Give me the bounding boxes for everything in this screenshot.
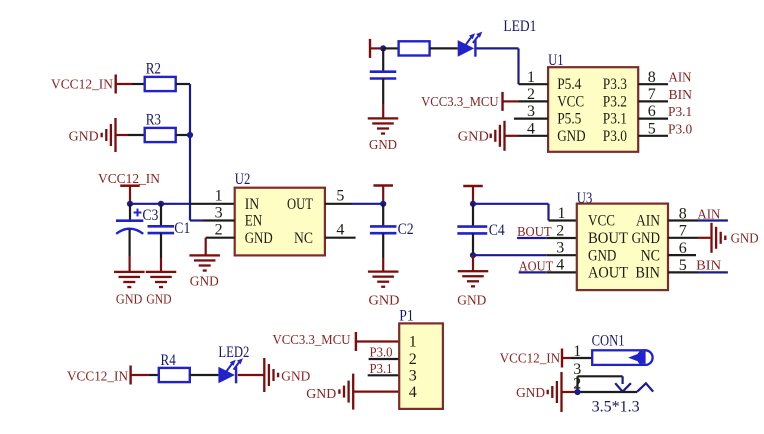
wire pin 5 OUT — [325, 203, 383, 205]
wire pin 6 — [668, 254, 696, 256]
IC U3 body — [577, 204, 668, 291]
wire — [160, 204, 162, 227]
wire — [190, 374, 219, 376]
svg-text:AIN: AIN — [669, 71, 692, 86]
wire pin 3 — [578, 375, 623, 377]
wire pin 3 — [473, 254, 577, 256]
power port tick — [369, 39, 371, 58]
svg-text:GND: GND — [116, 293, 142, 308]
svg-text:BIN: BIN — [669, 88, 693, 103]
wire — [476, 47, 518, 49]
svg-text:VCC: VCC — [557, 93, 584, 110]
svg-text:BIN: BIN — [696, 259, 721, 274]
svg-text:GND: GND — [69, 130, 99, 145]
svg-text:VCC12_IN: VCC12_IN — [67, 370, 128, 385]
svg-text:IN: IN — [245, 196, 260, 213]
junction node C3 — [127, 201, 133, 207]
wire pin 1 — [356, 340, 399, 342]
svg-text:1: 1 — [409, 334, 417, 351]
svg-text:P3.0: P3.0 — [668, 122, 692, 137]
wire — [130, 203, 235, 205]
wire — [472, 204, 474, 227]
wire pin 3 — [368, 374, 400, 376]
wire pin 6 — [638, 117, 668, 119]
wire vertical bus — [189, 84, 191, 221]
svg-text:4: 4 — [409, 384, 417, 401]
svg-text:3: 3 — [556, 240, 564, 257]
capacitor LED1 branch — [370, 72, 397, 79]
power bar — [463, 185, 483, 204]
capacitor C4 — [457, 227, 487, 234]
IC U1 body — [548, 67, 638, 152]
wire — [383, 47, 398, 49]
svg-text:GND: GND — [146, 293, 171, 308]
svg-text:3: 3 — [409, 368, 417, 385]
power bar VCC12_IN — [120, 184, 140, 203]
svg-text:P3.0: P3.0 — [603, 128, 627, 145]
svg-text:R4: R4 — [161, 352, 176, 369]
svg-text:R3: R3 — [146, 112, 161, 129]
svg-text:GND: GND — [588, 247, 616, 264]
power port tick VCC12_IN — [115, 75, 117, 94]
junction node C1 — [158, 201, 164, 207]
svg-text:LED1: LED1 — [503, 18, 536, 35]
wire pin 2 — [503, 100, 549, 102]
svg-text:3: 3 — [215, 204, 223, 221]
svg-text:P3.1: P3.1 — [668, 105, 692, 120]
svg-text:GND: GND — [369, 138, 397, 153]
svg-text:BIN: BIN — [635, 265, 660, 282]
ground — [490, 121, 506, 151]
svg-text:NC: NC — [294, 230, 313, 247]
ground — [114, 271, 145, 288]
wire pin 4 — [519, 271, 577, 273]
svg-text:CON1: CON1 — [592, 333, 625, 350]
svg-text:C2: C2 — [398, 221, 414, 238]
svg-text:U2: U2 — [235, 171, 251, 188]
resistor R2 — [145, 77, 176, 91]
ground — [368, 117, 399, 134]
svg-text:4: 4 — [336, 221, 344, 238]
plus sign C3 — [134, 209, 142, 217]
power port tick — [355, 332, 357, 351]
ground — [101, 118, 117, 152]
svg-text:GND: GND — [457, 294, 486, 309]
wire pin 4 — [353, 391, 399, 393]
svg-text:2: 2 — [215, 221, 223, 238]
wire pin 7 — [638, 100, 668, 102]
svg-text:P5.4: P5.4 — [557, 76, 581, 93]
svg-text:GND: GND — [190, 275, 219, 290]
svg-text:C3: C3 — [142, 207, 158, 224]
resistor R3 — [145, 128, 176, 142]
wire — [160, 233, 162, 258]
wire — [238, 374, 264, 376]
svg-text:GND: GND — [245, 230, 273, 247]
svg-text:AIN: AIN — [697, 207, 720, 222]
svg-text:C4: C4 — [489, 222, 505, 239]
svg-text:P5.5: P5.5 — [557, 111, 581, 128]
wire — [473, 203, 549, 205]
wire pin 7 — [668, 237, 710, 239]
wire — [116, 134, 145, 136]
wire pin 2 — [369, 358, 400, 360]
svg-text:GND: GND — [632, 230, 660, 247]
wire — [176, 83, 190, 85]
wire — [382, 233, 384, 258]
ground — [368, 270, 399, 287]
wire — [131, 374, 159, 376]
svg-text:GND: GND — [557, 128, 585, 145]
svg-text:P3.1: P3.1 — [603, 111, 627, 128]
power port tick VCC3.3_MCU — [501, 92, 503, 111]
wire pin 3 EN — [190, 219, 235, 221]
svg-text:VCC12_IN: VCC12_IN — [500, 352, 560, 367]
svg-text:5: 5 — [336, 188, 344, 205]
svg-text:1: 1 — [215, 188, 223, 205]
svg-text:VCC12_IN: VCC12_IN — [51, 78, 113, 93]
wire pin 4 — [505, 135, 549, 137]
svg-text:GND: GND — [281, 370, 310, 385]
wire pin 1 — [549, 219, 577, 221]
switch contact arrow — [615, 376, 631, 391]
svg-text:AIN: AIN — [636, 213, 660, 230]
svg-text:LED2: LED2 — [218, 344, 249, 361]
capacitor C1 — [148, 226, 175, 233]
svg-text:NC: NC — [641, 247, 660, 264]
svg-text:GND: GND — [516, 386, 545, 401]
wire — [370, 47, 383, 49]
wire — [176, 134, 190, 136]
junction — [380, 45, 386, 51]
wire — [129, 204, 131, 221]
svg-text:GND: GND — [458, 130, 489, 145]
svg-text:2: 2 — [556, 222, 564, 239]
ground — [263, 358, 279, 392]
svg-text:EN: EN — [245, 213, 263, 230]
capacitor C2 — [370, 226, 397, 233]
wire — [205, 238, 207, 256]
wire pin 8 — [668, 219, 728, 221]
wire — [472, 233, 474, 255]
svg-text:OUT: OUT — [287, 196, 313, 213]
junction — [187, 132, 193, 138]
wire pin 2 GND — [206, 237, 235, 239]
svg-text:3.5*1.3: 3.5*1.3 — [592, 399, 640, 416]
svg-text:GND: GND — [369, 294, 400, 309]
wire — [382, 204, 384, 227]
svg-text:P3.2: P3.2 — [603, 93, 627, 110]
wire pin 2 — [578, 391, 638, 393]
regulator U2 body — [235, 188, 325, 256]
ground — [338, 374, 354, 410]
LED LED2 — [218, 358, 243, 383]
LED LED1 — [458, 32, 483, 57]
svg-text:P1: P1 — [399, 308, 414, 325]
wire pin 5 — [638, 135, 668, 137]
power port tick — [561, 349, 563, 368]
wire pin 2 — [517, 237, 577, 239]
connector P1 body — [399, 323, 443, 409]
junction — [470, 201, 476, 207]
power bar — [373, 184, 393, 204]
resistor R1 — [399, 41, 430, 55]
wire pin 5 — [668, 271, 728, 273]
junction — [470, 252, 476, 258]
ground — [146, 271, 177, 288]
svg-text:C1: C1 — [174, 220, 190, 237]
wire — [430, 47, 458, 49]
wire — [129, 230, 131, 257]
wire — [382, 48, 384, 71]
ground — [547, 372, 563, 412]
wire pin 8 — [638, 83, 668, 85]
svg-text:VCC: VCC — [588, 213, 615, 230]
spring contact zigzag — [637, 383, 653, 391]
ground — [710, 223, 726, 253]
svg-text:R2: R2 — [146, 61, 161, 78]
svg-text:VCC3.3_MCU: VCC3.3_MCU — [421, 95, 499, 110]
junction — [380, 201, 386, 207]
wire pin 1 — [562, 357, 592, 359]
capacitor C3 polarized — [116, 221, 143, 234]
wire — [562, 391, 578, 393]
wire pin 1 — [519, 83, 549, 85]
wire — [116, 83, 145, 85]
svg-text:1: 1 — [558, 205, 566, 222]
svg-text:4: 4 — [556, 257, 564, 274]
svg-text:GND: GND — [306, 387, 336, 402]
svg-text:VCC3.3_MCU: VCC3.3_MCU — [273, 333, 351, 348]
svg-text:AOUT: AOUT — [588, 265, 628, 282]
ground — [458, 270, 489, 287]
wire pin 4 NC — [325, 237, 356, 239]
wire — [472, 255, 474, 271]
resistor R4 — [159, 368, 190, 382]
svg-text:2: 2 — [409, 351, 417, 368]
wire pin 3 — [514, 117, 548, 119]
svg-text:GND: GND — [731, 231, 759, 246]
wire — [382, 79, 384, 105]
ground — [189, 254, 220, 271]
connector CON1 barrel jack — [592, 350, 652, 365]
svg-text:BOUT: BOUT — [588, 230, 628, 247]
power port tick — [129, 366, 131, 385]
junction — [574, 389, 580, 395]
svg-text:P3.3: P3.3 — [603, 76, 627, 93]
